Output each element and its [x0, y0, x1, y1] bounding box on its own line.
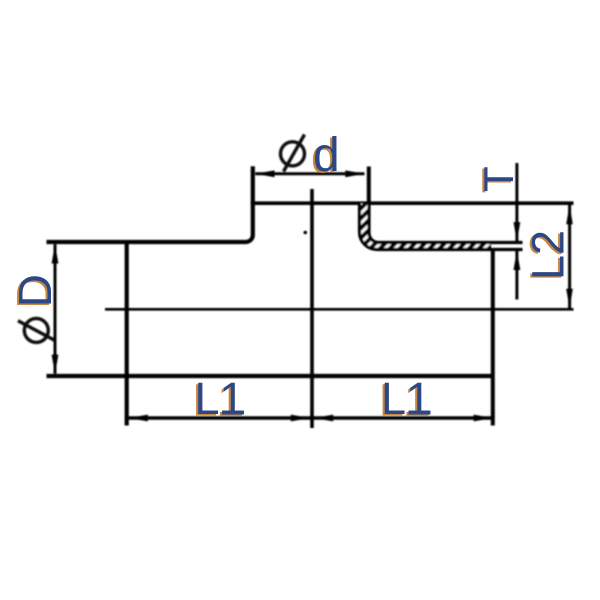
branch top face line (extends right as L2 extension line): [251, 201, 574, 205]
run left end face + L1 left extension line: [125, 240, 129, 426]
wall band inner boundary (branch inner wall, elbow, run outer top): [360, 204, 523, 250]
dimension L1 line with four arrowheads: [129, 415, 493, 422]
wall band outer boundary (branch outer wall, elbow, run inner top): [369, 204, 523, 243]
stray centerline dot: [304, 231, 308, 235]
run right end face + L1 right extension line: [491, 248, 495, 426]
dimension L2: [566, 205, 573, 308]
run bottom outline (extends left as ØD extension): [47, 374, 494, 378]
branch right wall dim extension above top face: [367, 167, 371, 204]
sectioned wall band hatch fill: [360, 204, 492, 250]
dimension Ø D: [52, 244, 59, 373]
branch centerline: [310, 189, 314, 428]
diameter symbol Ø (top, for Ø d): [281, 135, 305, 172]
diameter symbol Ø (left, for Ø D, rotated form): [18, 318, 55, 342]
dimension Ø d: [255, 170, 364, 177]
main blue glyph pass: [9, 129, 574, 424]
run top-left outline with fillet into branch left wall (wall extends up as dim extension): [47, 166, 253, 242]
orange subpixel fringe pass: [7, 130, 572, 425]
dimension T (wall thickness): [514, 163, 521, 300]
run centerline (extends right as L2 extension): [105, 308, 574, 311]
